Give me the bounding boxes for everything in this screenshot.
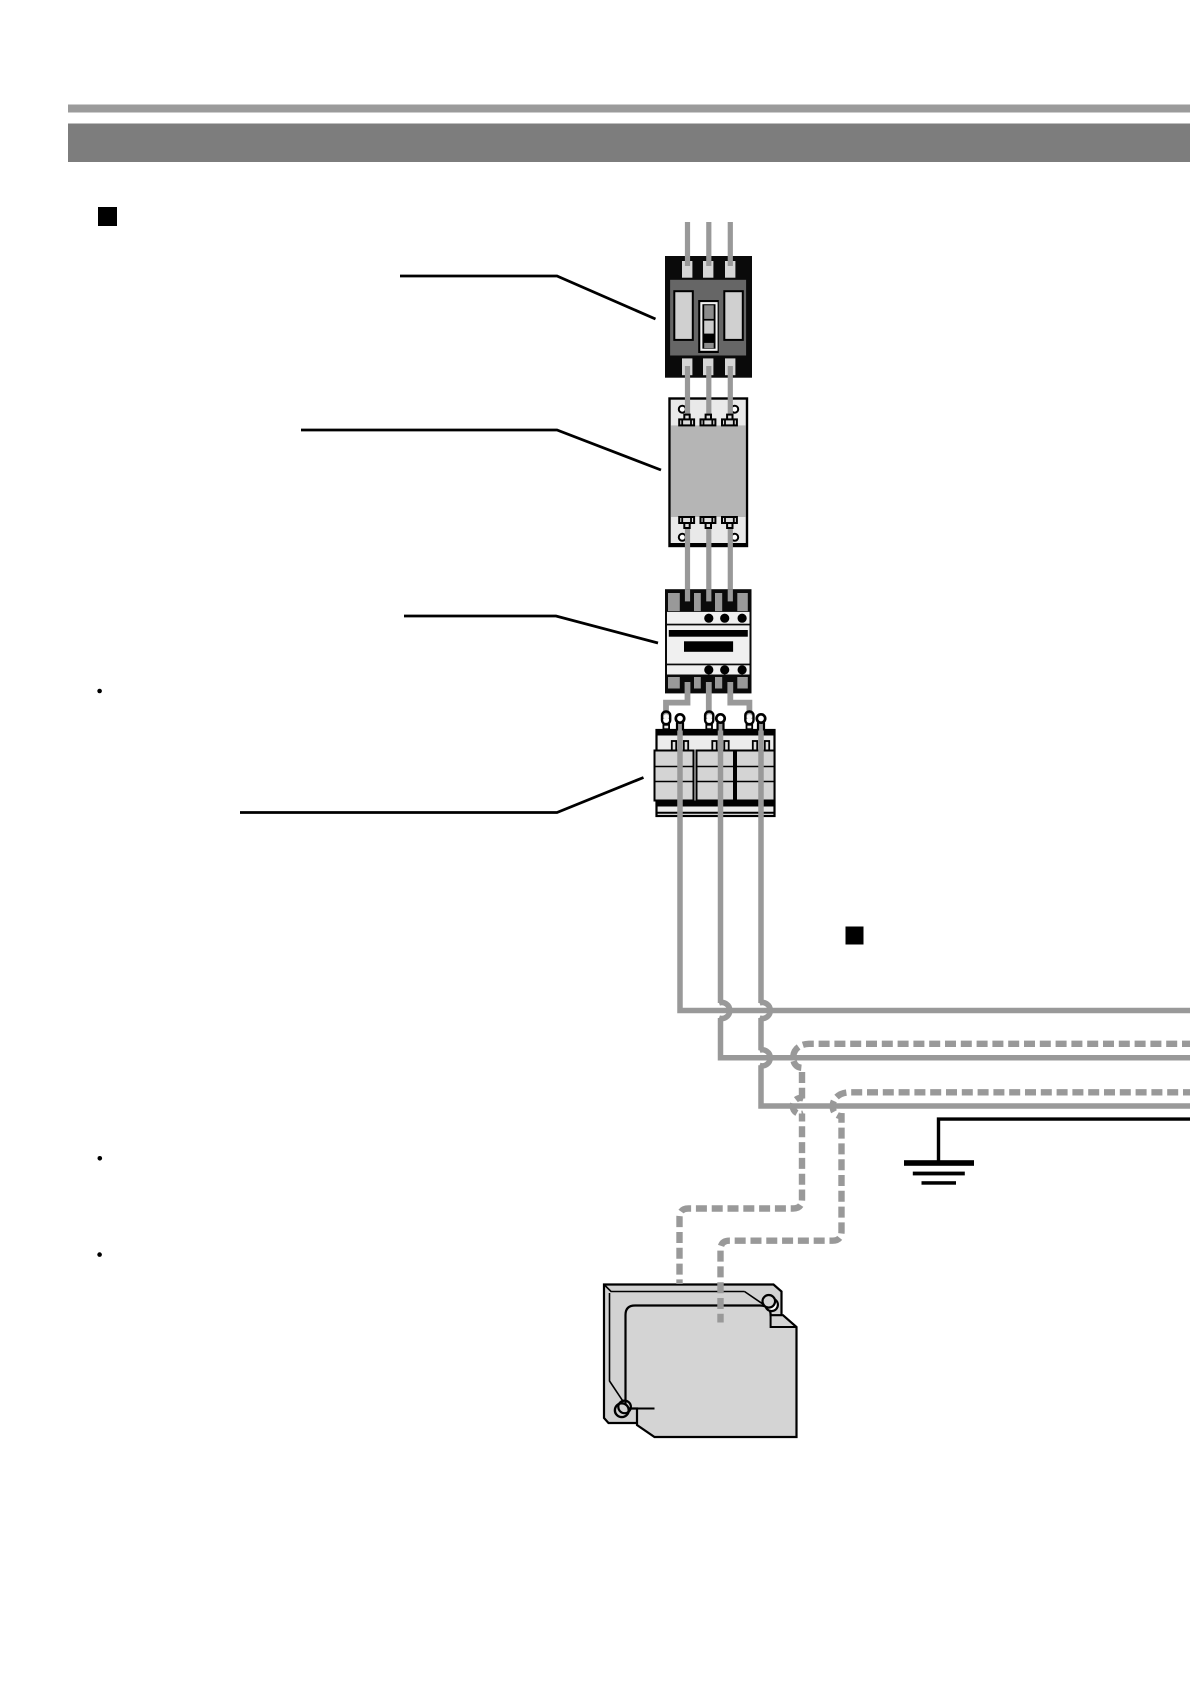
dashed signal wire 1 [680,1044,1190,1284]
terminal block input lug T [745,712,753,730]
ground symbol [904,1160,974,1185]
wire R filter to contactor [685,522,690,602]
MCCB circuit breaker body [665,256,752,378]
noise filter body [670,399,748,547]
section heading square [98,207,117,226]
leader line to magnetic contactor [404,616,658,643]
terminal block section 3 [736,751,775,801]
header title bar [68,124,1190,163]
bullet 1 [97,689,102,694]
contactor auxiliary contact dots bottom [704,665,747,674]
wire S filter to contactor [706,522,711,602]
wire S phase into MCCB [706,222,711,266]
controller device front panel [626,1306,797,1438]
wire V hop over wire U [719,1003,730,1019]
leader line to terminal block [240,778,644,813]
wire T phase into MCCB [728,222,733,266]
wire R MCCB to filter [685,366,690,420]
wire T MCCB to filter [728,366,733,420]
wire T filter to contactor [728,522,733,602]
magnetic contactor body [665,589,752,693]
dashed signal wire 2 [721,1092,1190,1322]
leader line to noise filter [301,430,661,470]
contactor bottom terminal lugs [668,677,748,689]
wire W hop over wire U [760,1003,771,1019]
noise filter mounting holes [679,406,738,541]
MCCB pole windows [674,291,743,340]
wire T inside contactor top [728,589,733,601]
wire R contactor to terminal block [666,682,688,719]
output ring terminal U [676,714,684,730]
wire S inside contactor top [706,589,711,601]
MCCB top terminal pads [682,261,735,278]
terminal block section 2 [697,751,735,801]
subsection square [846,927,864,945]
terminal block input lug S [705,712,713,730]
terminal block input lug R [662,712,670,730]
header thin rule [68,105,1190,113]
wire S contactor to terminal block [706,682,712,719]
controller device back plate [604,1285,782,1424]
MCCB bottom terminal pads [682,358,735,375]
bullet 3 [97,1252,102,1257]
contactor label bars [669,630,748,652]
leader line to MCCB [400,276,656,319]
filter input terminal screws [679,415,737,426]
output wire V down from ring (with hop gap) [721,722,1190,1058]
filter output terminal screws [679,517,737,528]
bullet 2 [98,1156,103,1161]
contactor top terminal lugs [668,593,748,611]
terminal block body [657,730,775,816]
output wire W down from ring (with hop gaps) [761,722,1190,1106]
device screw hole bottom-left [615,1401,631,1418]
wire T contactor to terminal block [730,682,749,719]
terminal block section 1 [655,751,694,801]
wire R inside contactor top [685,589,690,601]
wire R phase into MCCB [685,222,690,266]
terminal block pass-through slots [672,741,769,751]
contactor auxiliary contact dots top [704,614,747,623]
ground wire [939,1119,1190,1160]
wire W hop over wire V [760,1050,771,1066]
device screw hole top-right [763,1295,778,1311]
output ring terminal V [716,714,724,730]
wire S MCCB to filter [706,366,711,420]
output wire U down from ring [680,722,1190,1011]
output ring terminal W [757,714,765,730]
MCCB toggle handle [698,300,719,353]
